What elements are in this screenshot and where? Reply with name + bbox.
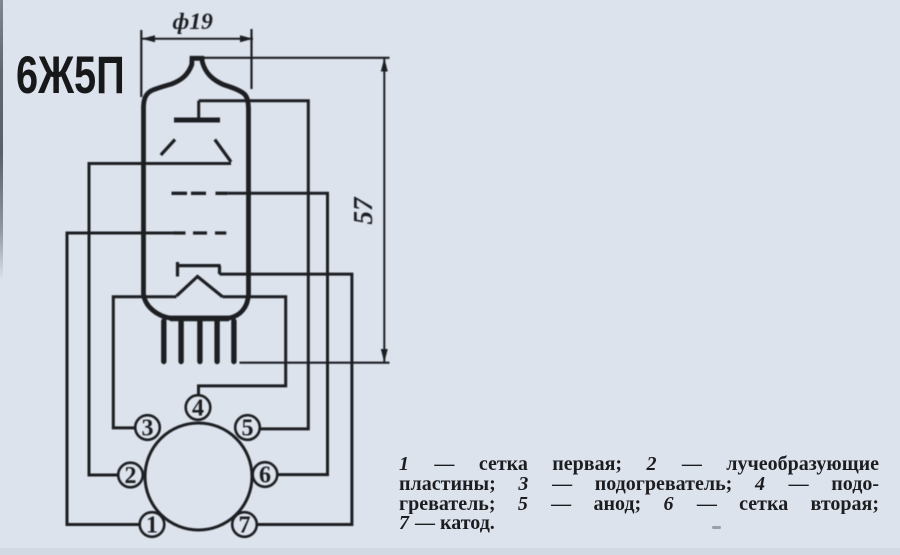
svg-text:7: 7 xyxy=(239,512,251,538)
svg-text:4: 4 xyxy=(192,395,204,421)
svg-text:ф19: ф19 xyxy=(173,9,214,35)
svg-text:6: 6 xyxy=(259,462,271,488)
pin 7 circle xyxy=(232,512,257,537)
bottom tick of height dim xyxy=(240,362,390,364)
dimension phi19 extension left xyxy=(140,30,142,97)
svg-text:57: 57 xyxy=(348,196,378,225)
pin 5 circle xyxy=(235,415,260,440)
socket base circle xyxy=(145,423,252,530)
anode plate A xyxy=(174,118,220,123)
small scan speck xyxy=(712,526,721,529)
pin numbers xyxy=(125,395,272,538)
svg-text:2: 2 xyxy=(125,463,137,489)
wire beam plates to pin 2 xyxy=(89,164,231,476)
pin 4 circle xyxy=(186,395,211,420)
svg-text:3: 3 xyxy=(142,415,154,441)
wire anode to pin 5 xyxy=(199,101,309,429)
pin 2 circle xyxy=(118,463,143,488)
tube envelope bottom edge xyxy=(170,316,229,322)
beam-forming plates xyxy=(161,140,175,156)
pin 1 circle xyxy=(140,512,165,537)
svg-text:5: 5 xyxy=(242,415,254,441)
wire heater to pin 3 xyxy=(113,297,176,428)
wire grid 2 to pin 6 xyxy=(228,193,328,474)
wire heater to pin 4 xyxy=(199,297,286,395)
legend text xyxy=(399,455,879,534)
cathode K xyxy=(176,262,221,277)
bottom scan shade xyxy=(0,548,900,555)
base pins stubs xyxy=(164,321,234,362)
top tick of height dim xyxy=(202,57,390,59)
wire cathode to pin 7 xyxy=(220,274,352,524)
pin 3 circle xyxy=(135,415,160,440)
height dimension line 57 xyxy=(383,59,385,363)
dimension phi19 line xyxy=(142,38,254,40)
svg-text:1: 1 xyxy=(146,512,158,538)
wire grid 1 to pin 1 xyxy=(67,233,173,525)
grid 2 (screen) dashed xyxy=(172,192,228,195)
pin 6 circle xyxy=(253,462,278,487)
anode lead xyxy=(197,101,200,118)
grid 1 (control) dashed xyxy=(173,231,227,234)
heater filament xyxy=(177,277,223,297)
tube type label 6Ж5П xyxy=(16,49,125,102)
scan gutter shadow left edge xyxy=(0,0,3,280)
tube envelope V1 xyxy=(144,58,249,318)
dimension phi19 extension right xyxy=(250,29,252,89)
